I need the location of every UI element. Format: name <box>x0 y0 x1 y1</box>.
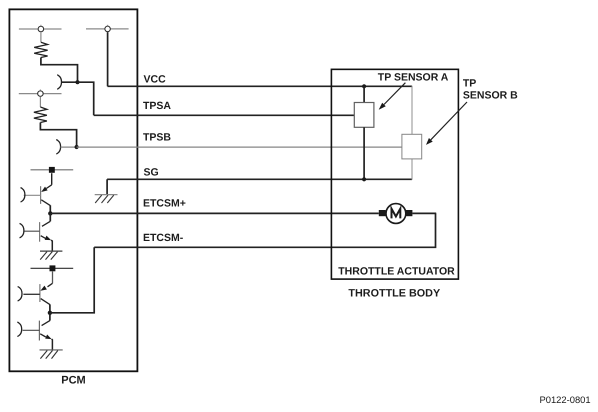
throttle actuator box <box>331 69 458 279</box>
ground G3 <box>40 350 63 359</box>
wire ETCSM- line <box>94 213 435 247</box>
power rail wire (terminal T1) <box>19 28 62 30</box>
power tap square S1 <box>49 167 55 173</box>
svg-text:P0122-0801: P0122-0801 <box>540 394 591 405</box>
svg-text:TPSB: TPSB <box>143 132 171 144</box>
wire T3 down to VCC <box>107 32 109 86</box>
junction node D5 (VCC / sensor A) <box>362 84 366 88</box>
svg-text:SG: SG <box>144 166 159 178</box>
wire sensor A to SG <box>363 127 365 179</box>
terminal stub T1 <box>40 25 42 26</box>
transistor Q3 (PNP) <box>23 271 52 312</box>
PCM box <box>9 9 137 371</box>
connector arc A5 <box>18 287 22 301</box>
power terminal T2 <box>38 91 44 97</box>
svg-text:VCC: VCC <box>144 73 167 85</box>
pointer arrow to sensor B <box>426 102 467 145</box>
connector arc A1 <box>57 75 61 89</box>
junction node D2 <box>75 145 79 149</box>
svg-text:TP SENSOR A: TP SENSOR A <box>378 71 449 83</box>
wire ETCSM- inner leg <box>50 247 94 312</box>
wire VCC down to TP sensor B <box>411 86 413 135</box>
junction node D4 <box>48 311 52 315</box>
TP sensor B <box>402 134 422 159</box>
ground G2 <box>40 251 62 260</box>
wire TPSB line <box>77 146 402 148</box>
connector arc A3 <box>21 188 25 202</box>
wire R1 to node D1 <box>41 58 78 83</box>
power rail wire (terminal T2) <box>19 93 62 95</box>
svg-text:SENSOR B: SENSOR B <box>463 89 518 101</box>
wire D5 to sensor A <box>363 86 365 102</box>
power rail wire (pair 2) <box>31 267 74 269</box>
svg-text:TPSA: TPSA <box>143 100 171 112</box>
svg-text:ETCSM-: ETCSM- <box>143 232 184 244</box>
power terminal T1 <box>38 26 44 32</box>
svg-text:ETCSM+: ETCSM+ <box>143 197 186 209</box>
resistor R2 <box>34 107 47 123</box>
wire SG line <box>107 178 412 180</box>
power tap square S2 <box>50 265 56 271</box>
wire T2 to R2 <box>39 97 41 107</box>
resistor R1 <box>34 42 47 57</box>
transistor Q1 (PNP) <box>24 173 52 213</box>
wire A2 to D2 <box>61 146 77 148</box>
wire TP sensor B down to SG <box>411 159 413 180</box>
wire D1 to TPSA <box>78 82 94 115</box>
terminal stub T3 <box>107 25 109 26</box>
connector arc A4 <box>20 224 24 238</box>
wire motor to ETCSM- corner <box>412 212 436 214</box>
TP sensor A <box>354 103 374 128</box>
wire R2 to node D2 <box>40 123 76 148</box>
connector arc A6 <box>17 322 21 336</box>
svg-text:THROTTLE ACTUATOR: THROTTLE ACTUATOR <box>338 266 455 278</box>
wire T1 to R1 <box>40 32 42 42</box>
terminal stub T2 <box>39 89 41 90</box>
connector arc A2 <box>56 140 60 154</box>
power terminal T3 <box>105 26 111 32</box>
pointer arrow to sensor A <box>379 83 406 110</box>
svg-text:THROTTLE BODY: THROTTLE BODY <box>348 287 441 299</box>
junction node D6 (SG / sensor A) <box>362 177 366 181</box>
wire VCC line <box>108 85 413 87</box>
wire TPSA line <box>94 114 355 116</box>
transistor Q4 (NPN) <box>23 313 53 350</box>
svg-text:TP: TP <box>463 77 476 89</box>
wire ETCSM+ line <box>50 212 379 214</box>
power rail wire (terminal T3) <box>86 28 129 30</box>
transistor Q2 (NPN) <box>24 213 53 251</box>
wire A1 to D1 <box>61 81 77 83</box>
ground G1 (signal ground) <box>95 179 118 203</box>
svg-text:PCM: PCM <box>61 375 85 387</box>
junction node D1 <box>75 80 79 84</box>
junction node D3 <box>48 211 52 215</box>
power rail wire (pair 1) <box>31 169 74 171</box>
motor M1 <box>379 204 413 224</box>
